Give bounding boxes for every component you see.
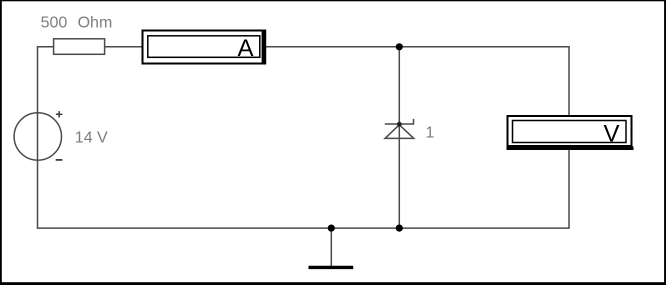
wire ammeter to node A <box>266 46 400 48</box>
svg-text:1: 1 <box>426 125 435 142</box>
wire node A to top-right corner <box>399 46 569 48</box>
wire resistor to ammeter <box>105 46 143 48</box>
svg-text:V: V <box>604 121 620 148</box>
zener diode 1 <box>385 119 414 138</box>
svg-text:Ohm: Ohm <box>78 14 113 31</box>
svg-text:14 V: 14 V <box>75 129 108 146</box>
voltmeter V <box>507 116 634 150</box>
wire right vertical through voltmeter <box>568 46 570 228</box>
wire diode branch vertical <box>398 47 400 228</box>
wire bottom horizontal <box>37 227 570 229</box>
voltage source V1 <box>14 111 62 160</box>
resistor <box>54 39 105 55</box>
ground <box>309 228 354 267</box>
svg-text:500: 500 <box>41 14 68 31</box>
node A junction dot (top) <box>396 43 403 50</box>
zener cathode junction dot <box>397 122 402 127</box>
wire top-left horizontal to resistor <box>37 46 54 48</box>
svg-text:A: A <box>238 35 254 62</box>
junction dot diode bottom <box>396 225 403 232</box>
label 500 Ohm <box>41 14 113 31</box>
wire left vertical (source branch) <box>37 47 39 228</box>
junction dot ground node <box>328 225 335 232</box>
ammeter A <box>143 30 267 65</box>
